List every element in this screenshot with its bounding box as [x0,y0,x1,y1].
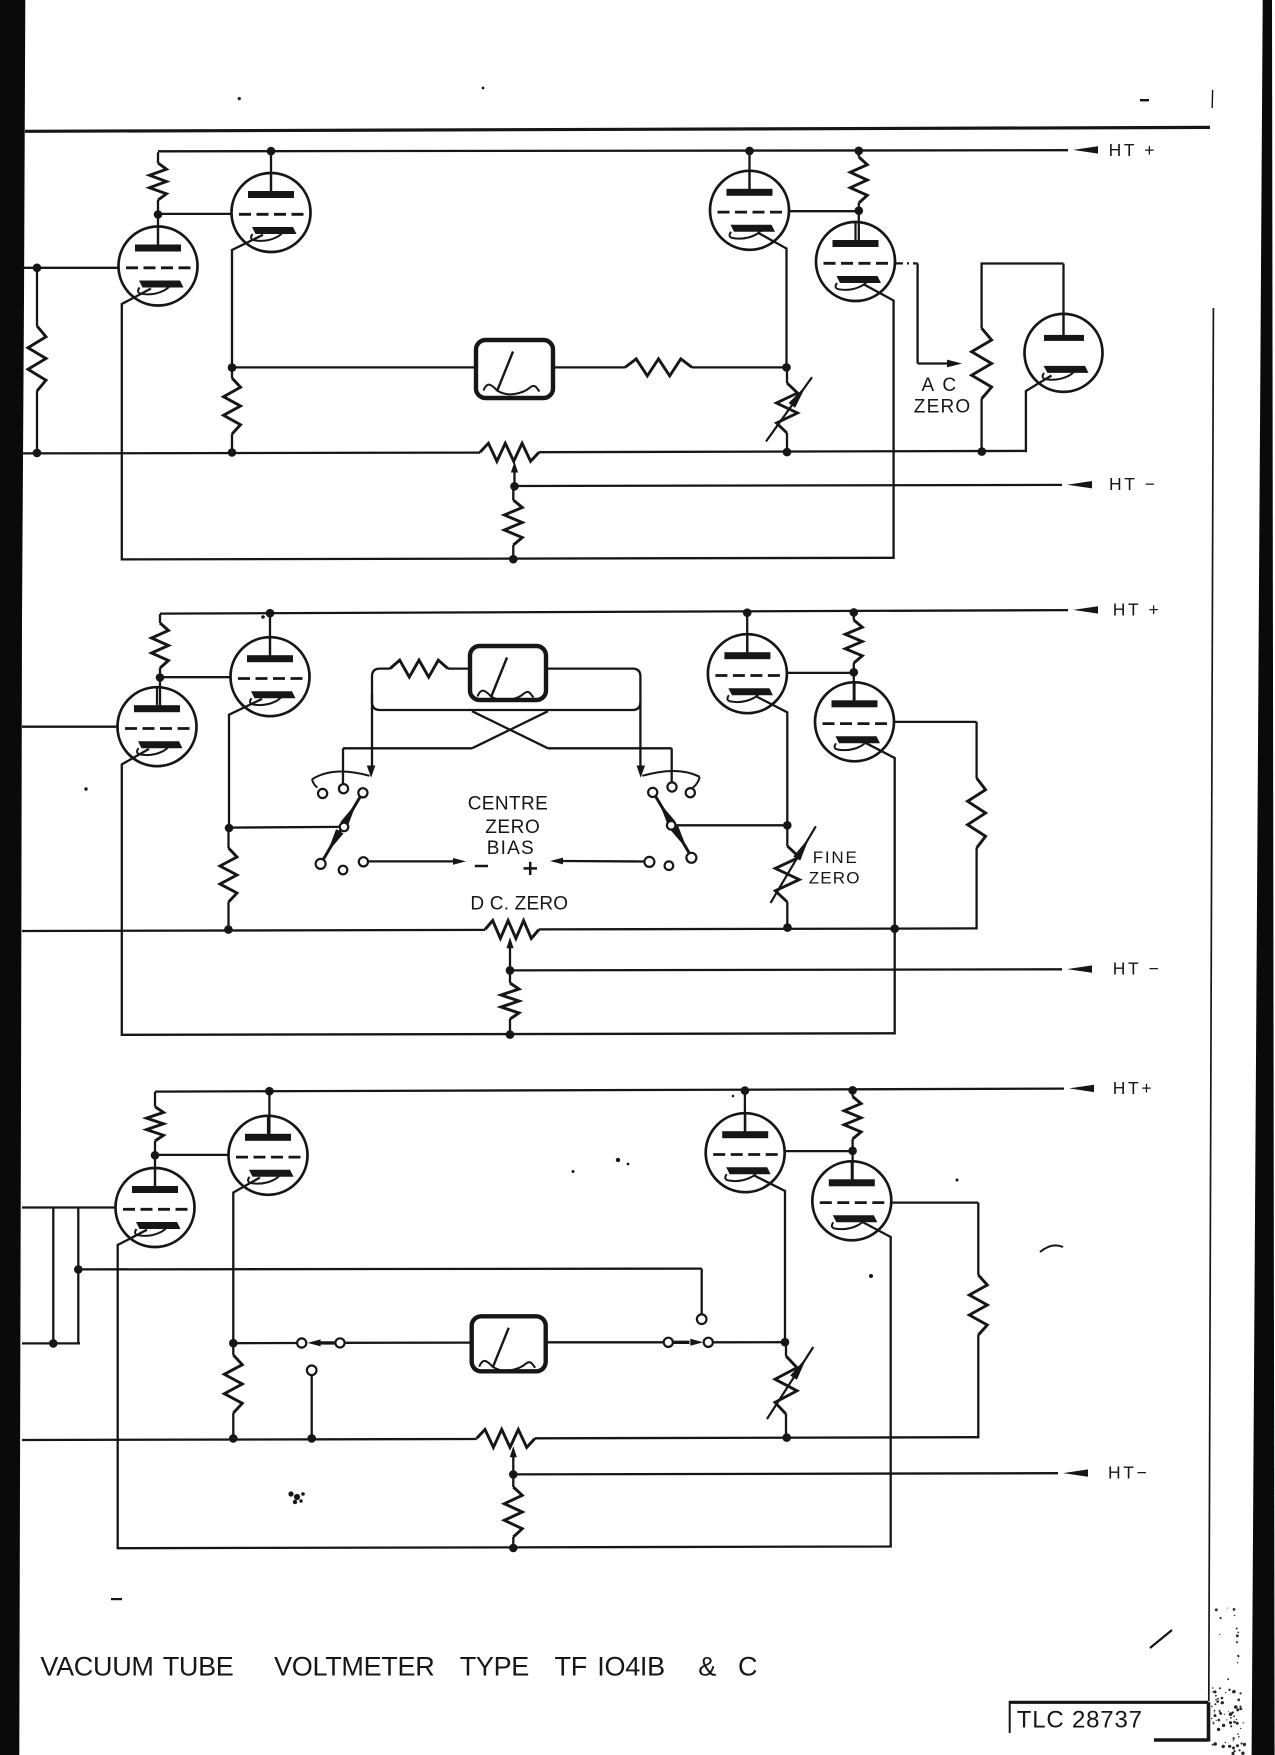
svg-text:TF: TF [555,1652,587,1682]
svg-text:C: C [738,1652,757,1682]
svg-text:HT −: HT − [1109,474,1158,494]
svg-text:IO4IB: IO4IB [597,1652,665,1682]
svg-text:HT+: HT+ [1113,1078,1154,1098]
svg-text:CENTRE: CENTRE [468,794,549,815]
svg-text:BIAS: BIAS [487,838,535,859]
svg-text:ZERO: ZERO [914,397,972,418]
svg-text:&: & [698,1652,716,1682]
svg-text:A C: A C [922,375,959,396]
svg-text:ZERO: ZERO [809,868,861,887]
svg-text:FINE: FINE [813,848,859,867]
svg-text:VOLTMETER: VOLTMETER [274,1652,434,1682]
svg-text:HT +: HT + [1109,140,1158,160]
svg-text:TLC 28737: TLC 28737 [1017,1706,1143,1733]
svg-text:TYPE: TYPE [460,1652,529,1682]
svg-text:HT +: HT + [1113,600,1162,620]
svg-text:TUBE: TUBE [163,1652,234,1682]
svg-text:HT −: HT − [1113,958,1162,978]
svg-text:D C. ZERO: D C. ZERO [470,894,568,915]
svg-text:ZERO: ZERO [485,817,540,838]
svg-text:VACUUM: VACUUM [40,1652,153,1682]
svg-text:HT−: HT− [1108,1462,1149,1482]
